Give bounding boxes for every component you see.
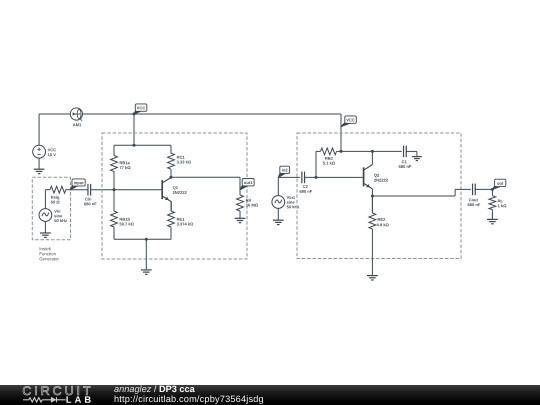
label R4 16M [246,199,258,207]
ground below RE2 [367,276,378,280]
resistor RC1 [168,145,175,177]
flag node out1 [240,179,254,190]
ground after C1 [412,157,422,161]
label RB2 5.1k [323,157,335,165]
wire Cout to out node [475,188,492,190]
wire top rail [114,144,171,146]
node Q2 base junction [315,176,318,179]
node VCC junction stage 2 [340,150,343,153]
footer bar [0,385,540,405]
label Cin 680nF [84,198,97,206]
ground stage 1 [141,270,152,274]
flag VCC net stage 1 [134,104,147,114]
resistor RL [489,189,496,219]
transistor Q1 2N2222 [162,177,171,201]
CircuitLab logo [0,385,100,405]
label Vin1 sine 50kHz [287,196,300,208]
voltage source VCC (10 V) [33,145,46,158]
resistor RE1 [168,201,175,239]
dashed box stage 1 [102,133,247,259]
label RB1a 77k [120,161,131,169]
label Vin sine 50kHz [54,210,67,222]
wire in2 node to Vin1 [277,177,279,195]
resistor RB2 [316,148,341,155]
node bottom rail ground junction [145,238,148,241]
wire VCC drop into stage 2 [340,114,342,151]
wire out1 node to R4 [239,177,241,195]
wire VCC source to ammeter [39,113,70,115]
resistor RB1a [111,145,118,189]
label AM1 [73,123,81,126]
wire Q1 collector to out1 [171,176,240,178]
wire top supply rail [83,113,341,115]
wire C2 to Q2 base [305,176,364,178]
ground below Vin [40,233,51,237]
label RB1b 59.7k [120,218,134,226]
flag node out [492,179,505,189]
value label Rsig 50 ohm [51,196,60,204]
node VCC net junction [133,113,136,116]
label RC1 3.33k [177,156,191,164]
label Cout 680nF [468,198,481,206]
transistor Q2 2N2222 [364,165,373,189]
ground below RL [487,219,498,223]
source Vin1 sine [272,196,285,209]
label Instek Function Generator [40,247,59,260]
capacitor C1 [404,146,407,158]
wire bottom rail [114,238,171,240]
label VCC 10 V [48,148,56,156]
wire VCC to Q2 collector [341,150,372,152]
resistor RE2 [369,196,376,276]
wire emitter output to Cout [372,189,471,196]
wire Vin1 to ground [277,208,279,220]
capacitor Cout [473,184,476,196]
resistor R4 [237,195,244,218]
node Q1 collector junction [170,176,173,179]
wire Q2 emitter to RE2 [371,189,373,213]
label Q2 2N2222 [374,174,388,182]
wire Cin to Q1 base [91,189,162,191]
capacitor C2 [302,172,305,184]
wire Vin to ground [44,221,46,233]
wire VCC source to ground [38,158,40,169]
wire VCC source to top rail [38,114,40,145]
wire C1 to ground [406,151,417,156]
label C2 680nF [300,185,313,193]
label C1 680nF [399,160,412,168]
wire RB2 to Q2 base [315,151,317,177]
ground below R4 [235,218,246,222]
flag VCC net stage 2 [341,116,356,127]
wire VCC drop into stage 1 [133,114,135,145]
capacitor Cin [88,184,91,196]
footer text [114,385,264,404]
ground below Vin1 [273,220,284,224]
dashed box Instek [32,177,70,240]
flag node in2 [278,166,289,177]
resistor Rsig [45,186,70,193]
label Q1 2N2222 [173,186,187,194]
label RE2 4.8k [377,218,389,226]
node Q1 base divider junction [113,188,116,191]
node top rail junction stage 1 [133,144,136,147]
dashed box stage 2 [297,133,461,259]
label RE1 3.374k [177,218,194,226]
node Q2 emitter output junction [371,195,374,198]
label RL 1k [498,200,506,208]
wire Q1 emitter to RE1 [170,201,172,211]
node Q2 collector rail junction [371,150,374,153]
wire Q2 collector lead [371,151,373,164]
wire collector rail to C1 [372,150,401,152]
node out junction [491,188,494,191]
wire Vin to Rsig [44,190,46,209]
flag node input [71,179,86,190]
wire in2 node to C2 [278,176,300,178]
ammeter AM1 [70,108,82,121]
source Vin sine [39,209,52,222]
wire input node to Cin [71,189,88,191]
resistor RB1b [111,190,118,240]
ground below VCC source [34,169,45,173]
wire bottom rail to ground [145,239,147,270]
